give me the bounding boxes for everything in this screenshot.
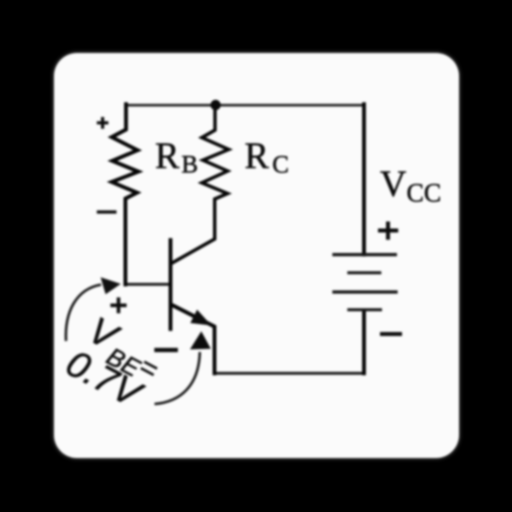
svg-text:R: R <box>155 135 180 176</box>
svg-text:R: R <box>245 135 270 176</box>
svg-text:C: C <box>272 151 289 178</box>
svg-text:B: B <box>181 151 198 178</box>
svg-text:V: V <box>380 163 406 204</box>
svg-text:CC: CC <box>407 179 442 208</box>
